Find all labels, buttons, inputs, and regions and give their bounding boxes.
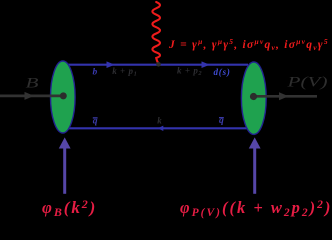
label b bbox=[93, 67, 98, 77]
label phi_B(k^2) bbox=[42, 197, 97, 219]
arrow on spectator line (pointing left) bbox=[158, 126, 164, 131]
P(V) line arrowhead bbox=[279, 92, 289, 100]
left meson blob (B) bbox=[51, 61, 76, 133]
label P(V) bbox=[286, 75, 328, 91]
label qbar (right) bbox=[219, 116, 224, 126]
right blob vertex dot bbox=[250, 93, 257, 100]
svg-text:φB(k2): φB(k2) bbox=[42, 197, 97, 219]
right wavefunction arrow bbox=[249, 137, 261, 193]
label k + p1 bbox=[112, 66, 137, 78]
left blob vertex dot bbox=[60, 92, 67, 99]
label phi_P(V)((k + w2 p2)^2) bbox=[180, 198, 332, 219]
svg-text:B: B bbox=[26, 75, 39, 91]
svg-text:b: b bbox=[93, 67, 98, 77]
svg-text:k: k bbox=[157, 116, 162, 126]
photon-quark vertex dot bbox=[156, 62, 161, 67]
right meson blob (P/V) bbox=[241, 62, 266, 134]
P(V) meson external line bbox=[253, 95, 317, 98]
left wavefunction arrow bbox=[59, 137, 71, 193]
label k + p2 bbox=[177, 66, 202, 78]
current operator label J bbox=[168, 37, 329, 52]
label qbar (left) bbox=[93, 117, 98, 127]
B meson line arrowhead bbox=[25, 92, 35, 100]
label k (spectator momentum) bbox=[157, 116, 162, 126]
photon line (wavy current insertion) bbox=[152, 2, 160, 64]
bottom spectator antiquark line bbox=[68, 127, 248, 129]
svg-text:P(V): P(V) bbox=[286, 75, 328, 91]
arrow on d(s) quark segment bbox=[202, 61, 210, 68]
label B bbox=[26, 75, 39, 91]
svg-text:d(s): d(s) bbox=[214, 67, 231, 77]
top quark line (b -> d(s)) bbox=[68, 64, 248, 66]
arrow on b quark segment bbox=[107, 61, 115, 68]
B meson external line bbox=[0, 95, 63, 98]
label d(s) bbox=[214, 67, 231, 77]
